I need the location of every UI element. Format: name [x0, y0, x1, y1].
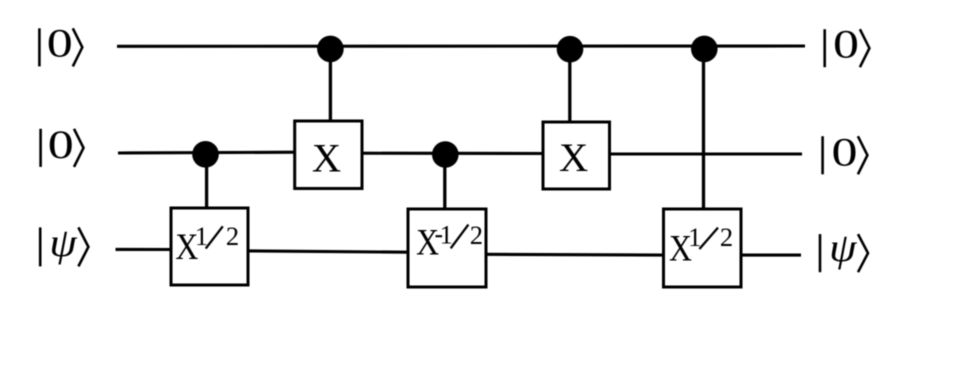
wire qubit2 segment 3 — [485, 253, 664, 257]
svg-text:0: 0 — [832, 131, 858, 175]
wire qubit2 segment 2 — [247, 251, 409, 252]
svg-text:1: 1 — [440, 219, 453, 249]
wire control vertical v1 — [205, 154, 208, 209]
gate X box G4 — [543, 122, 610, 189]
svg-text:ψ: ψ — [829, 227, 857, 271]
svg-text:X: X — [559, 135, 588, 180]
wire qubit1 segment middle — [361, 152, 544, 155]
label ket0 right row2 — [823, 131, 868, 175]
svg-text:2: 2 — [226, 221, 239, 251]
gate X1/2 box G5 — [664, 209, 742, 287]
svg-text:2: 2 — [720, 222, 733, 252]
svg-text:X: X — [416, 223, 439, 264]
gate X-1/2 box G3 — [408, 209, 486, 287]
wire qubit1 segment right — [609, 152, 802, 155]
svg-text:2: 2 — [470, 220, 483, 250]
wire control vertical v3 — [443, 154, 446, 210]
wire qubit0 top — [117, 44, 805, 47]
gate X1/2 box G1 — [171, 208, 248, 285]
svg-text:X: X — [312, 136, 341, 181]
wire control vertical v5 — [702, 48, 705, 210]
control dot middle 2 — [432, 141, 459, 168]
control dot top 3 — [691, 36, 718, 63]
control dot top 1 — [317, 36, 344, 63]
wire control vertical v4 — [568, 48, 571, 123]
gate X box G2 — [295, 121, 362, 189]
wire qubit2 segment right — [740, 254, 801, 257]
wire qubit1 segment left — [118, 151, 296, 155]
label ket0 left row1 — [39, 22, 82, 66]
control dot middle 1 — [192, 141, 219, 168]
label ketpsi right row3 — [820, 227, 868, 272]
label ketpsi left row3 — [40, 222, 88, 267]
control dot top 2 — [557, 36, 584, 63]
svg-text:0: 0 — [47, 22, 73, 66]
svg-text:0: 0 — [48, 124, 74, 168]
svg-text:ψ: ψ — [49, 222, 77, 266]
label ket0 right row1 — [825, 23, 870, 67]
svg-text:0: 0 — [833, 23, 859, 67]
wire qubit2 segment left — [116, 248, 173, 251]
wire control vertical v2 — [329, 48, 332, 122]
label ket0 left row2 — [41, 124, 84, 168]
